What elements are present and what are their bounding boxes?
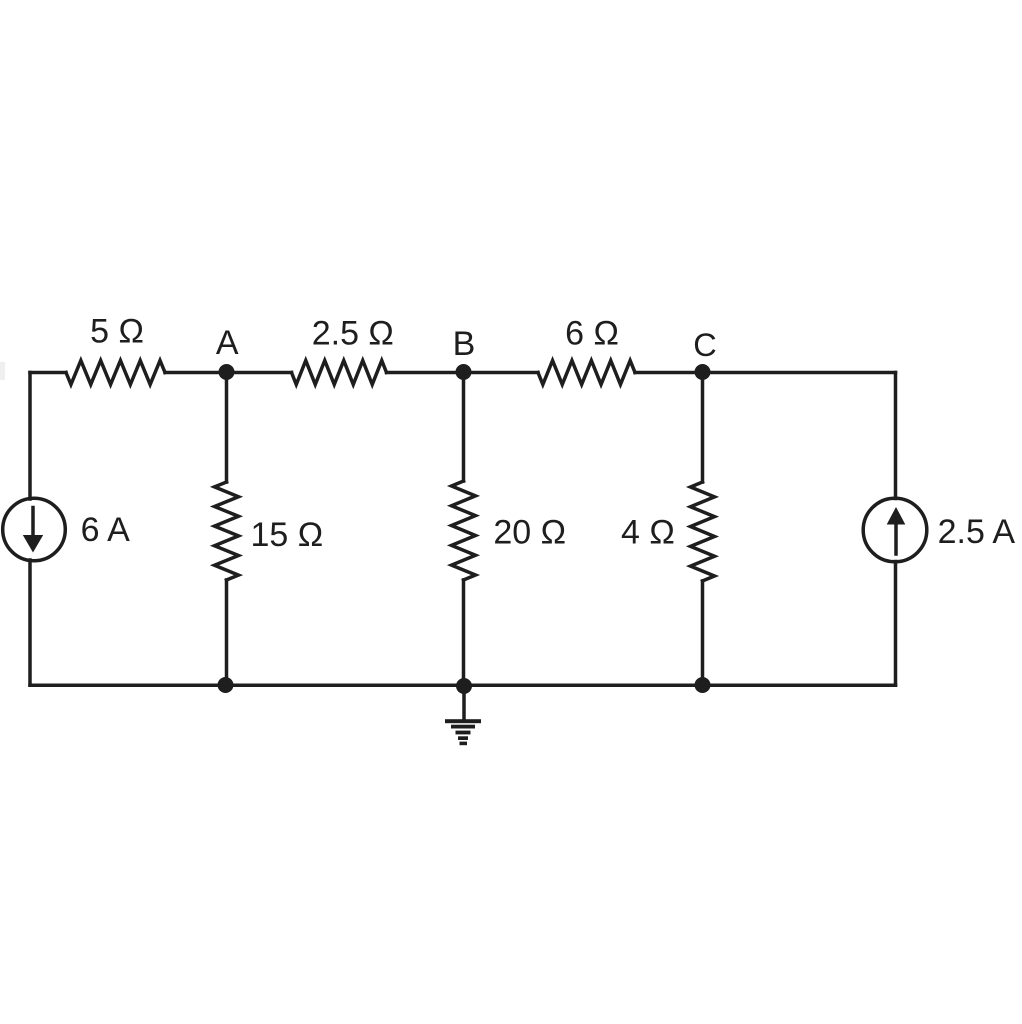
wire left branch upper xyxy=(28,373,32,500)
svg-text:5 Ω: 5 Ω xyxy=(90,313,144,351)
wire 5ohm to node A xyxy=(165,371,227,375)
svg-text:6 Ω: 6 Ω xyxy=(565,315,619,353)
svg-text:2.5 Ω: 2.5 Ω xyxy=(312,315,394,353)
current source I2 2.5A circle xyxy=(863,498,927,562)
wire branch A upper xyxy=(225,373,229,483)
edge artifact xyxy=(0,362,5,380)
wire node B to 6ohm xyxy=(464,371,539,375)
current source I2 arrow up xyxy=(894,525,898,555)
wire branch C upper xyxy=(701,373,705,483)
wire branch A lower xyxy=(225,580,229,685)
wire branch C lower xyxy=(701,581,705,685)
wire branch B upper xyxy=(462,373,466,482)
wire branch B lower xyxy=(462,580,466,685)
wire bottom rail xyxy=(30,683,896,687)
wire 2.5ohm to node B xyxy=(387,371,464,375)
svg-text:6 A: 6 A xyxy=(81,511,130,549)
resistor 15 ohm xyxy=(215,482,239,580)
bottom junction dot C xyxy=(695,677,711,693)
resistor 20 ohm xyxy=(452,481,476,580)
bottom junction dot B xyxy=(456,678,472,694)
svg-text:20 Ω: 20 Ω xyxy=(493,514,566,552)
wire right branch upper xyxy=(894,373,898,499)
resistor 2.5 ohm xyxy=(292,361,387,385)
wire 6ohm to node C xyxy=(635,371,703,375)
wire top-left rail segment xyxy=(30,371,66,375)
svg-text:4 Ω: 4 Ω xyxy=(621,514,675,552)
svg-text:2.5 A: 2.5 A xyxy=(938,513,1016,551)
svg-text:A: A xyxy=(216,324,239,362)
bottom junction dot A xyxy=(218,677,234,693)
node C junction dot xyxy=(695,364,711,380)
svg-text:B: B xyxy=(453,325,476,363)
wire node A to 2.5ohm xyxy=(227,371,292,375)
resistor 6 ohm xyxy=(538,361,635,385)
ground stem xyxy=(462,686,466,719)
resistor 5 ohm xyxy=(66,361,165,385)
node B junction dot xyxy=(456,364,472,380)
svg-text:15 Ω: 15 Ω xyxy=(251,516,324,554)
resistor 4 ohm xyxy=(691,482,715,581)
wire node C to top-right corner xyxy=(703,371,896,375)
svg-text:C: C xyxy=(693,327,716,363)
ground symbol xyxy=(445,719,481,745)
wire left branch lower xyxy=(28,560,32,685)
wire right branch lower xyxy=(894,562,898,686)
node A junction dot xyxy=(219,364,235,380)
current source I1 arrow down xyxy=(31,508,35,537)
current source I1 6A circle xyxy=(3,498,66,561)
